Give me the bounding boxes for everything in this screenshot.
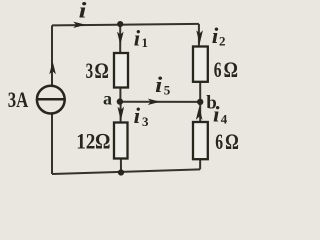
svg-text:Ω: Ω: [225, 129, 238, 154]
arrow up current i4: [196, 107, 203, 120]
wire top 6ohm resistor to node b: [199, 82, 201, 102]
wire node a to 12ohm resistor: [120, 102, 122, 123]
arrow down current i3: [118, 107, 125, 121]
node b junction dot: [197, 99, 203, 105]
resistor 3ohm body: [114, 53, 128, 88]
svg-text:1: 1: [142, 35, 149, 50]
wire node b to lower 6ohm resistor: [199, 102, 201, 122]
svg-text:4: 4: [221, 112, 228, 127]
resistor 12ohm body: [114, 123, 128, 159]
wire node a to node b (middle horizontal): [120, 101, 200, 103]
svg-text:Ω: Ω: [95, 58, 109, 83]
svg-text:Ω: Ω: [224, 57, 238, 82]
arrow right current i on top wire: [73, 22, 86, 28]
junction dot bottom middle: [118, 169, 124, 175]
svg-text:i: i: [134, 103, 141, 128]
svg-text:12Ω: 12Ω: [76, 129, 110, 154]
svg-text:3A: 3A: [8, 87, 29, 112]
wire right branch upper (top corner to 6ohm resistor): [198, 24, 200, 47]
wire 3ohm resistor to node a: [119, 88, 121, 102]
arrow right current i5: [148, 99, 161, 105]
svg-text:3: 3: [86, 58, 94, 83]
svg-text:i: i: [213, 102, 220, 127]
paper background: [0, 0, 251, 189]
wire left upper (top corner down to current source): [51, 25, 53, 85]
wire left lower (current source to bottom wire): [51, 113, 53, 174]
current source 3A (circle with bar): [37, 86, 65, 114]
resistor 6ohm top body: [193, 47, 208, 82]
svg-text:2: 2: [219, 34, 226, 49]
node a junction dot: [117, 98, 123, 104]
junction dot top middle: [117, 21, 123, 27]
svg-text:a: a: [103, 89, 112, 109]
arrow down current i2: [196, 30, 203, 44]
wire lower 6ohm resistor to bottom corner: [199, 159, 201, 169]
svg-text:i: i: [155, 72, 163, 97]
svg-text:5: 5: [164, 82, 171, 97]
svg-text:3: 3: [142, 114, 149, 129]
svg-text:i: i: [134, 26, 141, 51]
arrow up on source wire: [49, 61, 56, 74]
wire top (left corner to right corner): [51, 25, 53, 28]
svg-text:i: i: [79, 0, 88, 23]
svg-text:6: 6: [215, 129, 223, 154]
arrow down current i1: [117, 32, 124, 45]
wire 12ohm resistor to bottom wire: [120, 159, 122, 173]
wire middle branch upper (top wire to 3ohm resistor): [119, 24, 121, 53]
wire bottom (left corner to right corner): [52, 169, 200, 174]
svg-text:6: 6: [214, 57, 222, 82]
resistor 6ohm bottom body: [193, 122, 208, 159]
